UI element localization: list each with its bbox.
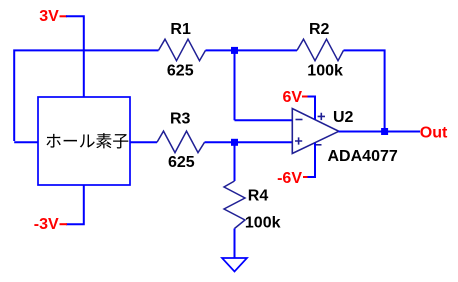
wire R4 to ground <box>234 229 236 259</box>
svg-text:Out: Out <box>420 124 448 141</box>
wire hall right to R3 <box>130 141 157 143</box>
svg-text:ADA4077: ADA4077 <box>328 148 398 165</box>
resistor R2 <box>297 39 344 61</box>
junction R3 node <box>231 139 238 146</box>
svg-text:R3: R3 <box>170 111 191 128</box>
resistor R3 <box>157 131 205 153</box>
wire junction to Out <box>388 131 420 133</box>
svg-text:U2: U2 <box>333 109 354 126</box>
svg-text:-3V: -3V <box>34 216 59 233</box>
junction output node <box>381 128 388 135</box>
hall element box <box>38 97 130 185</box>
wire R2 to output node <box>344 49 385 131</box>
node -6V lead (red) <box>303 176 309 178</box>
svg-text:R2: R2 <box>309 21 330 38</box>
op-amp non-inverting input plus mark <box>295 137 302 144</box>
op-amp V+ power plus mark <box>318 113 325 120</box>
wire hall left to R1 row <box>14 49 158 142</box>
node 6V lead (red) <box>302 96 309 98</box>
wire from 3V to hall top <box>66 15 84 97</box>
wire -6V to opamp bottom <box>308 143 316 178</box>
svg-text:-6V: -6V <box>277 170 302 187</box>
wire R3 to opamp non-inverting input <box>205 141 293 143</box>
svg-text:R1: R1 <box>170 21 191 38</box>
wire R1 to R2 <box>206 49 298 51</box>
node -3V flag lead (red) <box>60 223 68 225</box>
wire hall bottom to -3V <box>66 185 85 224</box>
wire 6V to opamp top <box>308 96 316 120</box>
op-amp V- power minus mark <box>314 144 321 146</box>
svg-text:625: 625 <box>168 154 195 171</box>
resistor R4 (vertical) <box>224 181 245 229</box>
op-amp inverting input minus mark <box>296 119 303 121</box>
wire junction down to R4 <box>234 146 236 182</box>
junction R1-R2 node <box>231 47 238 54</box>
hall element label (hooru soshi) <box>46 133 128 149</box>
ground <box>222 258 247 272</box>
svg-text:100k: 100k <box>307 63 343 80</box>
wire junction down to opamp inverting input <box>235 53 293 120</box>
wire opamp output to junction <box>339 131 385 133</box>
svg-text:R4: R4 <box>248 188 269 205</box>
node 3V flag lead (red) <box>60 15 68 17</box>
svg-text:6V: 6V <box>283 89 303 106</box>
op-amp U2 triangle <box>292 109 339 154</box>
svg-text:625: 625 <box>167 63 194 80</box>
svg-text:3V: 3V <box>39 8 59 25</box>
resistor R1 <box>159 39 206 61</box>
svg-text:100k: 100k <box>245 215 281 232</box>
